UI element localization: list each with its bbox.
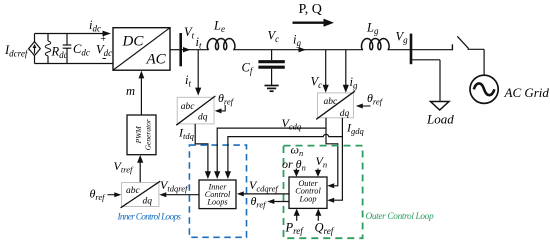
svg-text:P, Q: P, Q (299, 2, 322, 17)
resistor Rdc (45, 34, 50, 64)
svg-text:AC Grid: AC Grid (504, 85, 550, 100)
label Itdq (178, 126, 195, 142)
wire bottom DC rail (35, 63, 114, 65)
svg-text:abc: abc (181, 102, 196, 112)
label Cdc (73, 42, 90, 58)
AC grid source (470, 75, 498, 103)
label Inner Control Loops caption (117, 213, 182, 223)
label theta_ref U1 (218, 91, 235, 107)
load arrow (431, 102, 450, 111)
svg-text:Generator: Generator (143, 119, 152, 150)
label Le (213, 19, 225, 35)
label Outer Control Loop caption (366, 212, 434, 222)
capacitor Cf (258, 50, 284, 85)
label Vcdqref (249, 178, 279, 194)
svg-text:DC: DC (122, 34, 145, 50)
capacitor Cdc (63, 34, 72, 64)
wire Qref into outer block (315, 209, 321, 221)
label i_g (293, 33, 301, 49)
inductor Lg (361, 39, 389, 50)
label i_t vertical (185, 73, 191, 89)
label Vc node (268, 29, 280, 45)
svg-text:m: m (126, 84, 135, 98)
label Vc branch (311, 75, 323, 91)
label Idcref (4, 43, 29, 59)
wire Lg to grid bar (388, 49, 453, 51)
label Qref (315, 221, 335, 237)
outer control loop block (289, 177, 327, 208)
node Vg bar (410, 34, 413, 65)
label theta_ref output (251, 194, 268, 210)
abc/dq block U1 (i_t) (176, 96, 215, 125)
wire Pref into outer block (294, 209, 300, 221)
label Lg (366, 21, 379, 37)
wire theta_ref into U1 (215, 105, 226, 113)
wire Le to Lg (233, 47, 363, 52)
wire Vn into outer block (315, 169, 321, 177)
label AC Grid (504, 85, 550, 100)
wire m (PWM to converter) (139, 71, 145, 115)
svg-text:Loop: Loop (298, 194, 316, 203)
inner control loops dashed box (189, 145, 246, 237)
label Rdc (51, 45, 68, 61)
svg-text:Loops: Loops (206, 198, 227, 207)
label P,Q (299, 2, 322, 17)
wire load branch (411, 60, 440, 101)
svg-text:Outer Control Loop: Outer Control Loop (366, 212, 434, 222)
wire converter output (170, 47, 208, 52)
wire Vcdq bus to inner loops (214, 118, 326, 179)
switch (452, 36, 484, 50)
wire Vtdqref (inner to U4) (159, 192, 199, 197)
abc/dq block U2 (Vc, ig) (316, 91, 355, 119)
wire Vcdqref (outer to inner) (237, 191, 289, 196)
label Pref (285, 221, 305, 237)
label m (126, 84, 135, 98)
current source Idcref (29, 34, 41, 64)
label ig branch (350, 75, 358, 91)
svg-text:-: - (102, 50, 106, 65)
wire Itdq to inner loops (195, 124, 211, 179)
wire theta_n into outer block (293, 169, 299, 177)
inner control loops block (199, 180, 236, 209)
inductor Le (207, 39, 235, 50)
converter block DC/AC (113, 28, 170, 70)
wire ig measurement branch (343, 50, 349, 93)
wire theta_ref into U4 (108, 192, 122, 197)
outer control loop dashed box (284, 146, 363, 239)
node Vt bar (179, 33, 182, 66)
label or theta_n (282, 157, 306, 173)
wire theta_ref into U2 (356, 104, 371, 109)
wire i_t branch down to abc block (195, 50, 201, 96)
wire to AC grid (483, 49, 485, 75)
label Igdq (346, 121, 365, 137)
label Vtref (114, 159, 134, 175)
label Vtdqref (160, 178, 189, 194)
label Vt (184, 25, 195, 41)
svg-text:dq: dq (143, 197, 153, 207)
label Cf (242, 61, 254, 77)
wire Igdq bus to inner loops (with hop over Vcdq drop) (225, 118, 343, 179)
wire Vc measurement branch (323, 50, 329, 93)
wire theta_ref output of outer (267, 199, 289, 204)
label i_t on line (196, 35, 202, 51)
label Load (426, 112, 454, 127)
label Vcdq (282, 116, 302, 132)
svg-text:Inner Control Loops: Inner Control Loops (117, 213, 182, 223)
wire top DC rail (35, 31, 112, 37)
wire Vtref (dq-abc to PWM) (137, 155, 143, 183)
svg-text:abc: abc (126, 186, 141, 196)
wire Igdq branch down to outer loop (327, 137, 342, 203)
svg-text:dq: dq (198, 113, 208, 123)
label theta_ref U4 (90, 187, 107, 203)
dq/abc block U4 (Vtdqref) (121, 181, 161, 208)
label Vn (316, 154, 328, 170)
svg-text:PWM: PWM (134, 126, 143, 145)
svg-text:Load: Load (426, 112, 454, 127)
label Vg (396, 30, 409, 46)
wire Vcdq branch down to outer loop (326, 128, 338, 188)
ground (265, 86, 279, 92)
svg-text:dq: dq (340, 109, 350, 119)
label Vdc with polarity (96, 34, 112, 65)
svg-text:abc: abc (324, 97, 339, 107)
label i_dc (89, 18, 101, 34)
PWM generator block (127, 115, 156, 155)
label theta_ref U2 (367, 91, 384, 107)
svg-text:AC: AC (146, 52, 167, 68)
label omega_n (291, 143, 304, 159)
arrow P,Q (293, 19, 335, 27)
